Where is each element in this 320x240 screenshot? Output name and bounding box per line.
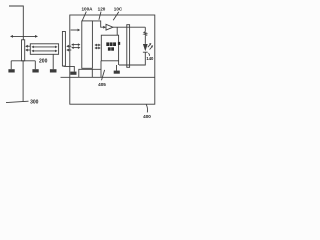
- cable box 200: [30, 44, 58, 55]
- label 100A: [82, 6, 94, 11]
- double-headed arrow across feed: [10, 35, 38, 38]
- ground mid stub: [116, 65, 118, 71]
- ground ANT2: [70, 72, 76, 75]
- label 10C: [114, 6, 123, 11]
- ANT1 ground T-bar: [11, 61, 35, 69]
- antenna ANT1 element: [22, 40, 25, 61]
- svg-text:120: 120: [98, 6, 106, 11]
- leader 10C: [113, 12, 119, 20]
- ground mid: [114, 71, 120, 74]
- node 300 leader: [6, 101, 29, 102]
- antenna ANT2 element: [62, 32, 65, 67]
- op-amp U1: [106, 24, 113, 30]
- base box under wall: [79, 69, 101, 77]
- ANT2 ground wire: [64, 66, 75, 71]
- svg-text:100A: 100A: [82, 6, 94, 11]
- radiation arrows at ANT1: [25, 45, 30, 52]
- leader 405: [102, 70, 105, 80]
- wire receiver bottom-left down to bus: [100, 61, 102, 70]
- radiation arrows at ANT2: [66, 45, 71, 52]
- svg-text:10C: 10C: [114, 6, 123, 11]
- node 200 label: [39, 59, 48, 65]
- wire wall to amp input: [92, 21, 103, 27]
- leader 100A: [82, 12, 86, 21]
- svg-text:400: 400: [143, 114, 151, 119]
- shield wall box 100A: [82, 21, 93, 68]
- wire LED bottom to receiver: [119, 52, 145, 65]
- label 400: [143, 114, 151, 119]
- leader 120: [99, 12, 101, 20]
- leader 140: [148, 53, 151, 56]
- label 120: [98, 6, 106, 11]
- wave arrows right of wall: [94, 44, 100, 50]
- LED emission arrows: [148, 43, 153, 50]
- cable inner double arrows: [31, 46, 57, 53]
- ground cable: [50, 69, 57, 72]
- device box 100: [70, 15, 155, 104]
- svg-text:140: 140: [146, 56, 154, 61]
- wire to LED: [144, 36, 146, 44]
- wave arrows left of wall: [71, 43, 80, 49]
- wire junction down to receiver box: [116, 27, 118, 35]
- arrowhead amp input: [103, 26, 106, 29]
- wire ANT1 feed down: [22, 61, 24, 102]
- wire receiver right edge down: [118, 61, 120, 65]
- svg-text:200: 200: [39, 59, 48, 65]
- svg-text:300: 300: [30, 100, 39, 106]
- isolation barrier column: [127, 25, 130, 68]
- arrow into shield wall: [71, 29, 81, 32]
- CJK text line1: [106, 42, 116, 46]
- label 140: [146, 56, 154, 61]
- resistor squiggle: [144, 32, 147, 36]
- pin mark on receiver right edge: [118, 42, 120, 45]
- receiver box (CJK text): [101, 35, 118, 61]
- ground right: [32, 69, 38, 72]
- bus wire bottom: [61, 76, 155, 78]
- svg-text:405: 405: [98, 82, 106, 87]
- LED D1: [143, 44, 148, 51]
- leader 400: [146, 104, 147, 112]
- wire amp output: [113, 26, 145, 28]
- wire top-left feed: [9, 6, 23, 40]
- label 405: [98, 82, 106, 87]
- CJK text line2: [108, 47, 114, 50]
- wire output corner down: [144, 27, 146, 31]
- ground left: [8, 69, 14, 72]
- cable shield ground stub: [52, 54, 54, 69]
